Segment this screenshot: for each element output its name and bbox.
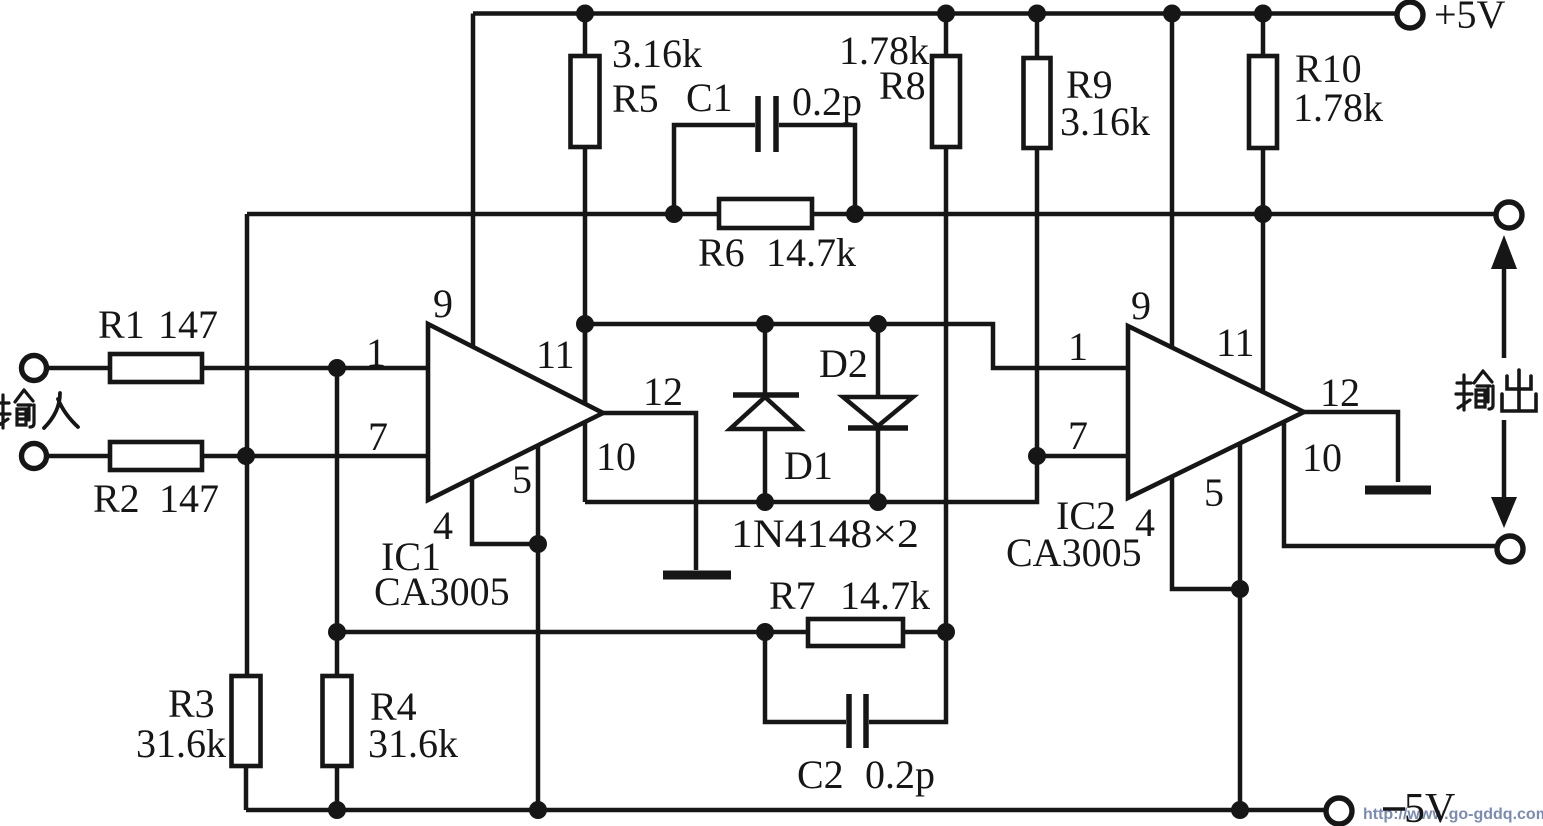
- junction dot rail B at C1 left: [665, 205, 683, 223]
- resistor R4: [323, 676, 352, 810]
- svg-text:R3: R3: [168, 681, 215, 726]
- wire IC2 pin 9 drop from top rail: [1170, 14, 1175, 349]
- svg-text:5: 5: [512, 457, 532, 502]
- terminal output top circle: [1496, 202, 1522, 228]
- svg-text:R8: R8: [879, 63, 926, 108]
- resistor R6: [719, 199, 812, 228]
- junction dot bottom rail at IC1 pin5 wire: [529, 801, 547, 819]
- junction dot line D at D2: [869, 493, 887, 511]
- svg-text:12: 12: [1320, 370, 1360, 415]
- svg-text:12: 12: [643, 369, 683, 414]
- resistor R5: [571, 14, 600, 405]
- svg-text:+5V: +5V: [1434, 0, 1506, 37]
- svg-text:14.7k: 14.7k: [766, 230, 856, 275]
- svg-text:10: 10: [1302, 435, 1342, 480]
- wire IC2 pin 5: [1238, 443, 1243, 589]
- svg-text:31.6k: 31.6k: [368, 721, 458, 766]
- svg-text:1: 1: [366, 330, 386, 375]
- capacitor C1 right lead: [779, 125, 855, 214]
- label input chinese shu: [0, 390, 34, 428]
- wire IC1 pin 5: [536, 445, 541, 544]
- resistor R8: [932, 14, 960, 633]
- wire IC1 pin 4: [472, 478, 538, 544]
- ground IC1 output: [663, 571, 731, 580]
- svg-text:C1: C1: [686, 75, 733, 120]
- svg-text:1N4148×2: 1N4148×2: [731, 511, 919, 556]
- resistor R7: [808, 619, 903, 646]
- op-amp IC1: [428, 324, 603, 500]
- svg-text:1.78k: 1.78k: [1293, 85, 1383, 130]
- capacitor C1 left lead: [674, 125, 755, 214]
- svg-text:R5: R5: [612, 76, 659, 121]
- wire IC2 pin 12 output to ground: [1304, 412, 1398, 482]
- resistor R9: [1024, 14, 1051, 457]
- junction dot R2 node x246: [237, 447, 255, 465]
- junction dot line C at D1: [756, 315, 774, 333]
- diode D2: [843, 324, 913, 502]
- wire IC1 pin 7 input: [47, 454, 428, 459]
- wire line D diode bottom bus: [585, 456, 1037, 502]
- input terminal circle 2: [22, 444, 47, 469]
- label output chinese chu: [1502, 370, 1536, 411]
- capacitor C2 plates: [849, 694, 866, 748]
- svg-text:C2: C2: [797, 752, 844, 797]
- svg-text:9: 9: [1131, 283, 1151, 328]
- svg-text:147: 147: [159, 476, 219, 521]
- junction dot R7 line left: [328, 623, 346, 641]
- output arrow up: [1491, 235, 1517, 358]
- wire IC1 pin 9 drop from top rail: [471, 14, 476, 348]
- wire line C diode top bus: [585, 324, 1128, 368]
- svg-text:5: 5: [1204, 470, 1224, 515]
- svg-text:D1: D1: [784, 443, 833, 488]
- wire IC2 pin 4: [1172, 476, 1240, 589]
- label -5V: [1383, 786, 1455, 826]
- svg-text:D2: D2: [819, 341, 868, 386]
- svg-text:0.2p: 0.2p: [865, 752, 935, 797]
- junction dot rail A at R5: [576, 5, 594, 23]
- junction dot bottom rail at R4: [328, 801, 346, 819]
- label input chinese ru: [44, 393, 78, 428]
- wire feedback rail B: [247, 212, 1495, 217]
- junction dot rail A at R9: [1028, 5, 1046, 23]
- svg-text:147: 147: [158, 302, 218, 347]
- output arrow down: [1491, 420, 1517, 528]
- svg-text:R2: R2: [93, 476, 140, 521]
- junction dot IC2 pin4 pin5 node: [1231, 580, 1249, 598]
- junction dot IC1 pin1 node x337: [328, 359, 346, 377]
- label output chinese shu: [1456, 371, 1493, 410]
- wire IC1 pin 1 input: [47, 366, 428, 371]
- wire pin1 node drop to R4: [335, 368, 340, 676]
- junction dot R7 line at C2 left: [756, 623, 774, 641]
- svg-text:5V: 5V: [1404, 786, 1455, 826]
- svg-text:1: 1: [1068, 324, 1088, 369]
- wire IC1 pin 10 lead: [583, 422, 588, 502]
- wire IC1 pin 12 output to ground: [603, 413, 696, 570]
- junction dot rail B at R10 lead: [1254, 205, 1272, 223]
- svg-text:R6: R6: [698, 230, 745, 275]
- svg-text:3.16k: 3.16k: [1060, 99, 1150, 144]
- wire +5V top rail: [473, 11, 1397, 16]
- svg-text:11: 11: [536, 332, 575, 377]
- junction dot rail A at R10: [1254, 5, 1272, 23]
- junction dot line C at R5 lead: [576, 315, 594, 333]
- svg-text:0.2p: 0.2p: [792, 79, 862, 124]
- svg-text:R7: R7: [769, 573, 816, 618]
- junction dot line C at D2: [869, 315, 887, 333]
- junction dot rail A at IC2 pin 9 wire: [1163, 5, 1181, 23]
- input terminal circle 1: [22, 356, 47, 381]
- junction dot rail B at C1 right: [846, 205, 864, 223]
- resistor R1: [110, 354, 202, 382]
- svg-text:R1: R1: [98, 302, 145, 347]
- diode D1: [730, 324, 800, 502]
- svg-text:14.7k: 14.7k: [840, 573, 930, 618]
- wire rail B left drop to R3: [245, 214, 250, 676]
- svg-text:CA3005: CA3005: [374, 569, 510, 614]
- junction dot pin7 node: [1028, 447, 1046, 465]
- junction dot line D at D1: [756, 493, 774, 511]
- wire pin5 node to bottom rail: [536, 544, 541, 810]
- wire IC2 pin 10 to output terminal: [1284, 422, 1496, 546]
- capacitor C2 left lead: [765, 632, 846, 722]
- ground IC2 output: [1365, 486, 1431, 495]
- svg-text:3.16k: 3.16k: [612, 31, 702, 76]
- wire IC1 pin 11 to line C: [583, 324, 588, 404]
- svg-text:7: 7: [368, 414, 388, 459]
- junction dot rail A at R8: [937, 5, 955, 23]
- terminal output bottom circle: [1497, 536, 1523, 562]
- terminal +5V circle: [1397, 2, 1423, 28]
- junction dot bottom rail at IC2 pin5 wire: [1231, 801, 1249, 819]
- wire IC2 pin 7 input: [1037, 454, 1128, 459]
- svg-text:7: 7: [1068, 413, 1088, 458]
- junction dot R7 line right: [937, 623, 955, 641]
- resistor R3: [232, 676, 261, 810]
- svg-text:10: 10: [596, 434, 636, 479]
- wire IC2 pin5 node to bottom rail: [1238, 589, 1243, 810]
- resistor R10: [1249, 14, 1277, 395]
- resistor R2: [110, 442, 202, 470]
- wire bottom rail: [246, 808, 1326, 813]
- op-amp IC2: [1128, 326, 1304, 498]
- wire R7 line: [337, 630, 946, 635]
- capacitor C1 plates: [758, 96, 776, 152]
- svg-text:CA3005: CA3005: [1006, 530, 1142, 575]
- terminal -5V circle: [1326, 798, 1352, 824]
- junction dot pin4 pin5 node: [529, 535, 547, 553]
- capacitor C2 right lead: [869, 632, 946, 722]
- svg-text:11: 11: [1216, 320, 1255, 365]
- svg-text:31.6k: 31.6k: [136, 721, 226, 766]
- svg-text:9: 9: [433, 281, 453, 326]
